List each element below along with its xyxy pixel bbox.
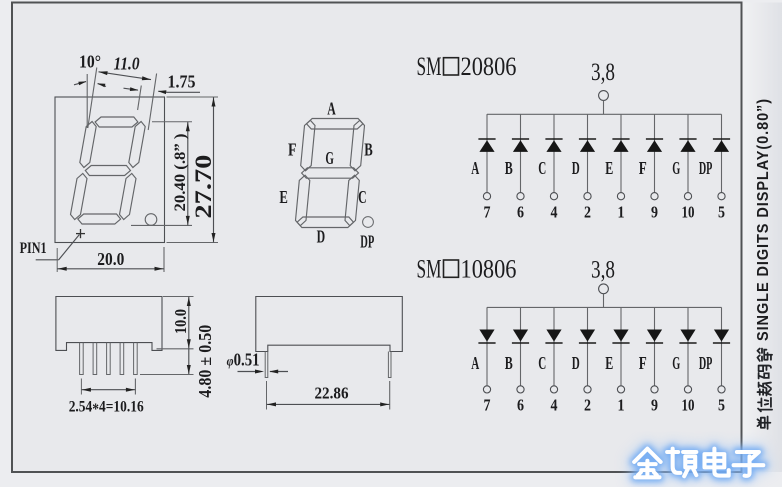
svg-text:SM: SM (417, 254, 442, 283)
svg-text:20.40 (.8” ): 20.40 (.8” ) (172, 134, 189, 212)
front digit segment E (71, 174, 88, 220)
dim 20.40 ext lines (152, 121, 192, 123)
angle arc arrow right (98, 84, 106, 87)
wire segment A (486, 307, 488, 385)
svg-text:C: C (538, 158, 546, 178)
wire segment B (520, 114, 522, 192)
dim 2.54 ext lines (80, 379, 82, 395)
wire segment G (687, 114, 689, 192)
dim 2.54 line (81, 389, 135, 391)
side view L pin 1 (80, 343, 84, 375)
diagram segment D (297, 217, 353, 228)
svg-text:22.86: 22.86 (315, 383, 349, 402)
svg-text:2: 2 (584, 202, 591, 221)
svg-text:10: 10 (682, 396, 695, 415)
terminal circle pin 7 (483, 193, 490, 200)
seg width arrow inner (124, 88, 138, 90)
svg-text:E: E (605, 158, 613, 178)
diode B (pin 6) (512, 342, 529, 344)
svg-text:G: G (672, 158, 680, 178)
diagram segment B (350, 120, 364, 171)
svg-text:D: D (572, 158, 580, 178)
side view L pin 3 (107, 343, 111, 375)
front digit segment D (78, 214, 121, 224)
svg-text:10: 10 (682, 202, 695, 221)
svg-text:20806: 20806 (461, 52, 517, 81)
svg-text:4: 4 (551, 202, 558, 221)
side view L pin 5 (134, 343, 138, 375)
terminal circle pin 10 (684, 386, 691, 393)
diagram segment C (345, 175, 359, 226)
svg-text:5: 5 (718, 202, 725, 221)
svg-text:SINGLE DIGITS DISPLAY(0.80”): SINGLE DIGITS DISPLAY(0.80”) (755, 98, 772, 341)
diode D (pin 2) (579, 342, 596, 344)
svg-text:10°: 10° (79, 51, 101, 71)
diode C (pin 4) (545, 138, 562, 140)
wire segment DP (721, 114, 723, 192)
diagram segment F (301, 120, 315, 171)
dim 27.70 extension lines (167, 96, 219, 98)
wire segment E (620, 114, 622, 192)
svg-text:27.70: 27.70 (191, 155, 216, 219)
svg-text:9: 9 (651, 202, 658, 221)
svg-text:F: F (288, 140, 297, 160)
svg-text:B: B (364, 140, 373, 160)
svg-text:6: 6 (517, 396, 524, 415)
terminal circle pin 9 (651, 386, 658, 393)
svg-text:C: C (358, 187, 367, 207)
svg-text:C: C (538, 353, 546, 373)
pin1 plus mark (80, 229, 82, 238)
angle extension line slanted (88, 68, 97, 129)
terminal circle pin 10 (684, 193, 691, 200)
svg-text:E: E (605, 353, 613, 373)
diagram segment G (302, 168, 359, 178)
svg-text:2.54*4=10.16: 2.54*4=10.16 (69, 398, 144, 418)
PIN1 leader line (36, 259, 59, 261)
diode A (pin 7) (478, 342, 495, 344)
svg-text:G: G (325, 148, 334, 168)
terminal circle pin 1 (617, 386, 624, 393)
svg-text:PIN1: PIN1 (20, 240, 47, 257)
terminal circle pin 6 (517, 193, 524, 200)
diode DP (pin 5) (713, 342, 730, 344)
front view body outline (55, 97, 165, 243)
seg width arrow outer (158, 91, 167, 92)
side view R body outline (256, 297, 402, 352)
terminal circle pin 9 (651, 193, 658, 200)
dim 4.80 line (188, 349, 190, 375)
bus wire (487, 113, 722, 115)
diode D (pin 2) (579, 138, 596, 140)
diode A (pin 7) (478, 138, 495, 140)
svg-text:3,8: 3,8 (591, 257, 615, 284)
front digit segment B (129, 122, 145, 168)
svg-text:4.80 ± 0.50: 4.80 ± 0.50 (195, 325, 215, 398)
diagram segment A (307, 119, 363, 130)
svg-text:D: D (317, 227, 326, 247)
svg-text:3,8: 3,8 (591, 59, 615, 86)
front digit segment C (120, 174, 137, 220)
diode C (pin 4) (545, 342, 562, 344)
svg-text:10.0: 10.0 (171, 309, 190, 334)
diode G (pin 10) (679, 342, 696, 344)
terminal circle pin 4 (550, 386, 557, 393)
svg-text:7: 7 (484, 396, 491, 415)
svg-text:6: 6 (517, 202, 524, 221)
node stub wire (603, 294, 605, 308)
phi 0.51 arrows (238, 371, 257, 373)
svg-text:A: A (471, 158, 479, 178)
dim 20.0 ext lines (56, 248, 58, 272)
node stub wire (603, 100, 605, 114)
watermark 金顿电子 (634, 449, 763, 478)
svg-text:1: 1 (618, 202, 625, 221)
dim 4.80 ext line bottom (140, 374, 194, 376)
terminal circle pin 4 (550, 193, 557, 200)
svg-text:F: F (639, 158, 647, 178)
front view DP circle (145, 214, 157, 226)
svg-text:B: B (505, 353, 513, 373)
front digit segment G (85, 166, 130, 176)
diode E (pin 1) (612, 342, 629, 344)
wire segment B (520, 307, 522, 385)
angle extension line vertical (86, 74, 88, 128)
side view L pin 4 (120, 343, 124, 375)
svg-text:20.0: 20.0 (97, 249, 124, 269)
diagram segment E (296, 175, 310, 226)
segment width ext line (138, 86, 142, 111)
terminal circle pin 5 (718, 386, 725, 393)
svg-text:9: 9 (651, 396, 658, 415)
diode G (pin 10) (679, 138, 696, 140)
wire segment G (687, 307, 689, 385)
wire segment DP (721, 307, 723, 385)
wire segment C (553, 114, 555, 192)
svg-text:DP: DP (699, 353, 713, 373)
title strip CJK 单位数码管 (758, 417, 771, 429)
svg-text:10806: 10806 (461, 254, 517, 283)
svg-text:DP: DP (699, 158, 713, 178)
svg-text:A: A (471, 353, 479, 373)
side view L body outline (56, 297, 162, 351)
dim 20.0 line (57, 268, 164, 270)
terminal circle pin 2 (584, 193, 591, 200)
dim 22.86 line (267, 403, 390, 405)
svg-text:2: 2 (584, 396, 591, 415)
svg-text:4: 4 (551, 396, 558, 415)
wire segment F (654, 307, 656, 385)
wire segment D (587, 114, 589, 192)
terminal circle pin 2 (584, 386, 591, 393)
dim 22.86 ext lines (266, 381, 268, 410)
wire segment A (486, 114, 488, 192)
svg-text:B: B (505, 158, 513, 178)
svg-text:F: F (639, 353, 647, 373)
svg-text:G: G (672, 353, 680, 373)
dim 10.0 line (188, 297, 190, 349)
diode B (pin 6) (512, 138, 529, 140)
svg-text:1: 1 (618, 396, 625, 415)
title strip separator (743, 3, 782, 473)
side view R pin left (265, 352, 268, 378)
svg-text:DP: DP (360, 231, 374, 251)
diode F (pin 9) (646, 342, 663, 344)
side view L pin 2 (93, 343, 97, 375)
svg-text:1.75: 1.75 (168, 71, 196, 91)
svg-text:11.0: 11.0 (114, 54, 140, 74)
diode E (pin 1) (612, 138, 629, 140)
diode F (pin 9) (646, 138, 663, 140)
terminal circle pin 1 (617, 193, 624, 200)
terminal circle pin 5 (718, 193, 725, 200)
wire segment D (587, 307, 589, 385)
front digit segment F (80, 122, 96, 168)
dim 27.70 line (213, 97, 215, 243)
diagram DP circle (363, 217, 374, 228)
svg-text:D: D (572, 353, 580, 373)
wire segment C (553, 307, 555, 385)
angle arc arrow left (74, 82, 86, 85)
terminal circle pin 6 (517, 386, 524, 393)
svg-text:E: E (279, 187, 288, 207)
title strip text rotated (755, 98, 772, 341)
svg-text:7: 7 (484, 202, 491, 221)
front digit segment A (95, 117, 138, 127)
dim 10.0 ext lines (163, 296, 194, 298)
wire segment F (654, 114, 656, 192)
dim 20.40 line (187, 122, 189, 226)
dim 11.0 line (99, 72, 152, 80)
svg-text:SM: SM (417, 52, 442, 81)
svg-text:A: A (327, 98, 336, 118)
side view R pin right (388, 352, 391, 378)
wire segment E (620, 307, 622, 385)
ext line for 11.0 right (148, 74, 156, 131)
bus wire (487, 306, 722, 308)
terminal circle pin 7 (483, 386, 490, 393)
svg-text:5: 5 (718, 396, 725, 415)
diode DP (pin 5) (713, 138, 730, 140)
label 1.75 underline (167, 91, 200, 93)
